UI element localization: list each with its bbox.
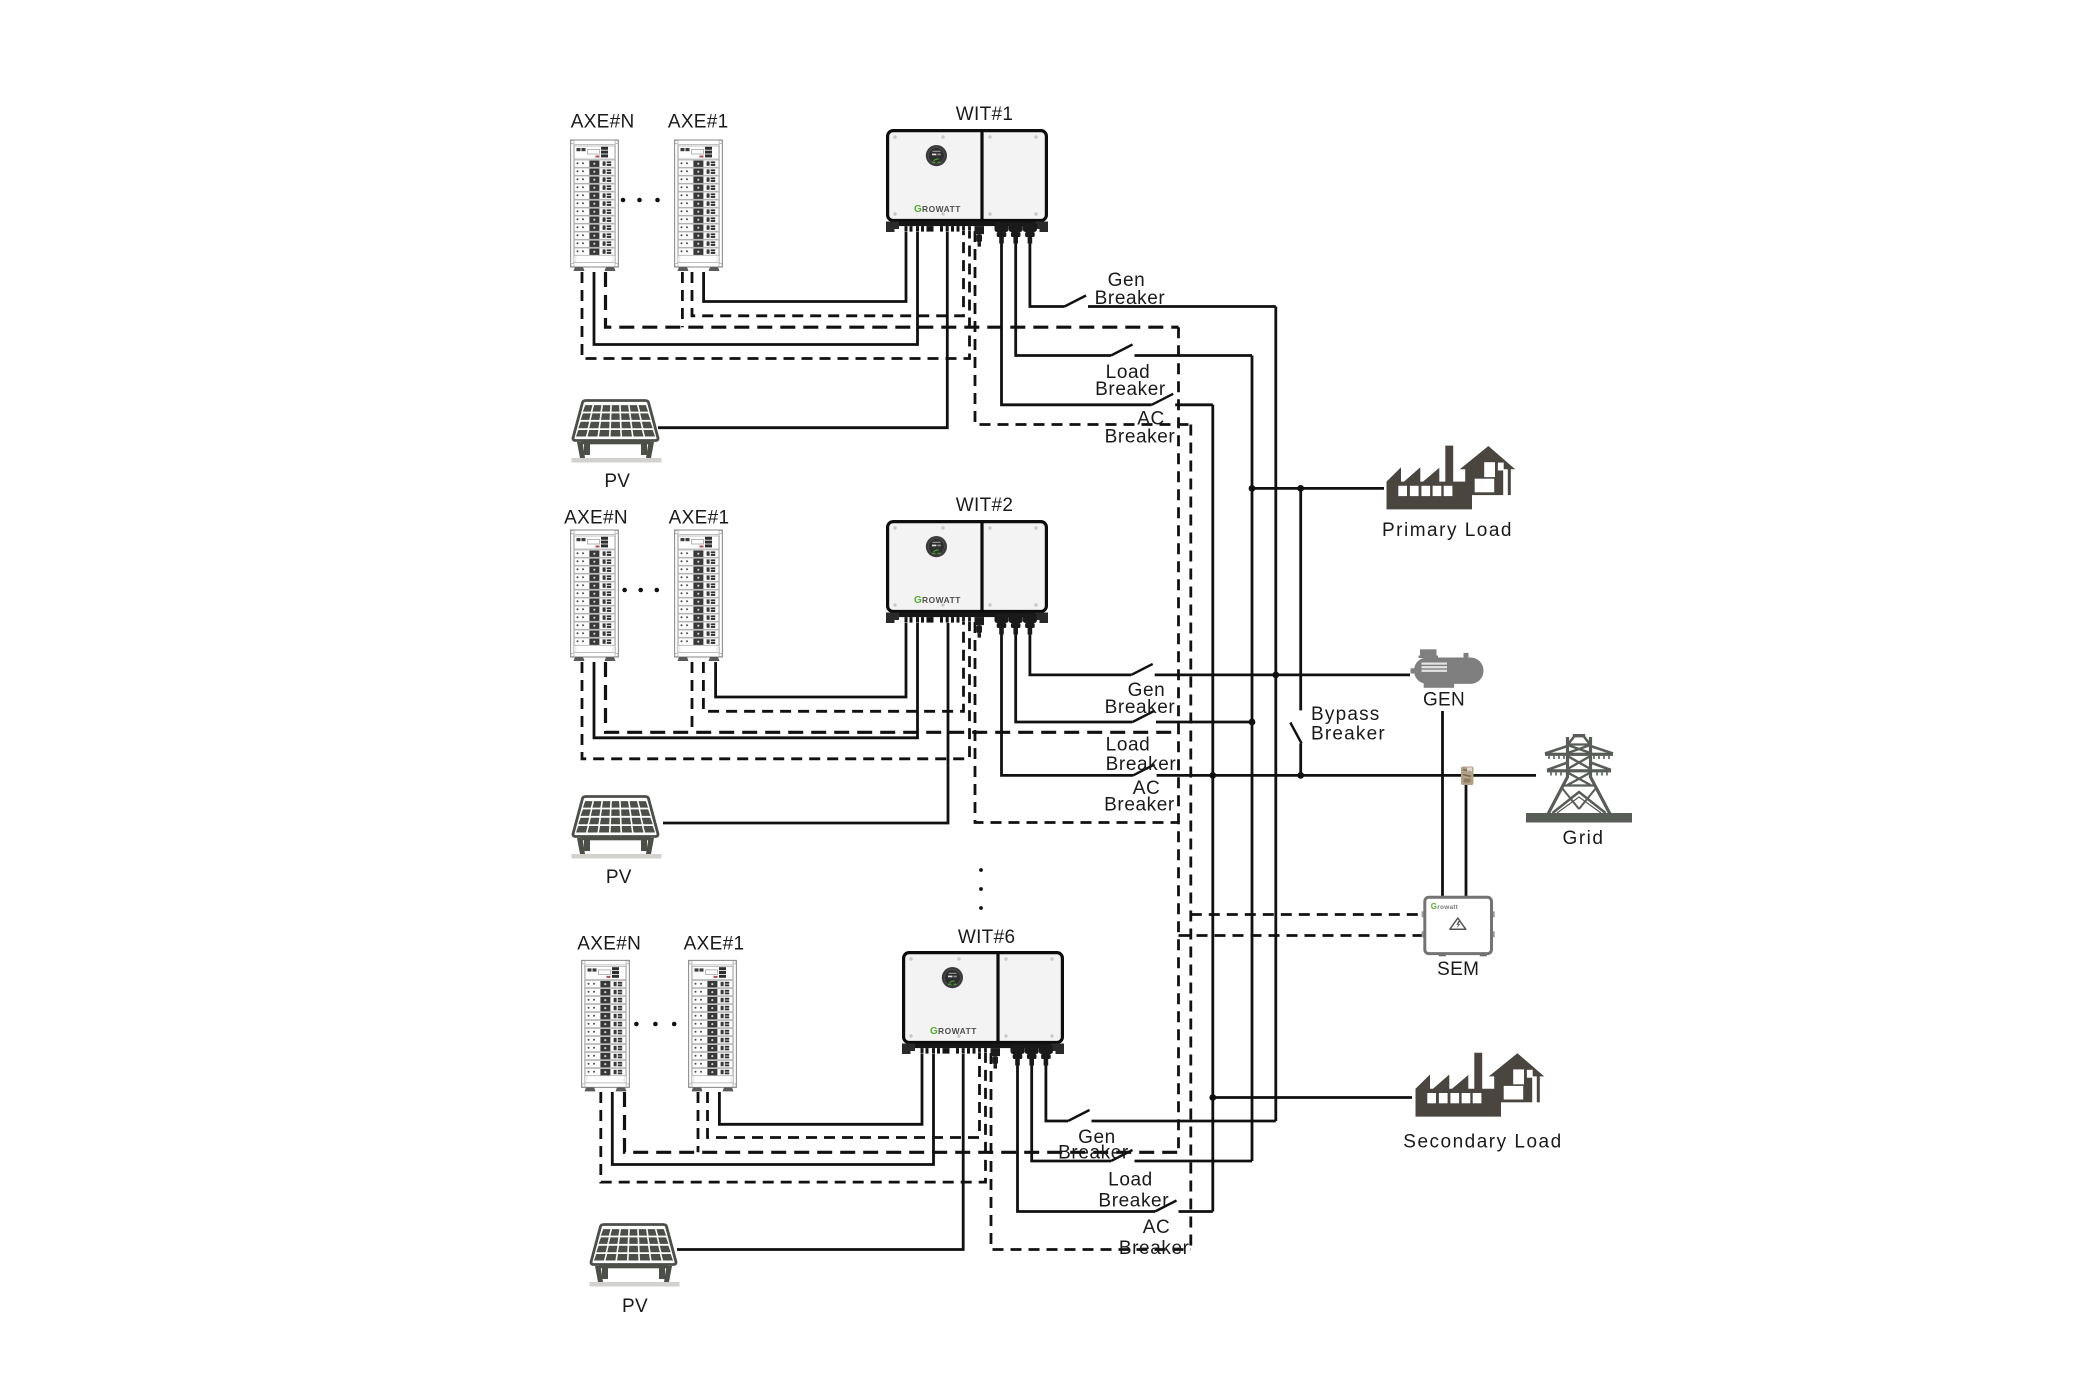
svg-text:GEN: GEN <box>1423 690 1465 711</box>
svg-text:Load: Load <box>1108 1170 1153 1191</box>
svg-text:Breaker: Breaker <box>1095 288 1166 309</box>
svg-text:Bypass: Bypass <box>1311 704 1381 725</box>
svg-text:Primary Load: Primary Load <box>1382 520 1513 541</box>
svg-text:Breaker: Breaker <box>1104 795 1175 816</box>
svg-text:PV: PV <box>606 867 632 888</box>
svg-text:SEM: SEM <box>1437 959 1479 980</box>
svg-text:Breaker: Breaker <box>1106 754 1177 775</box>
svg-text:Secondary Load: Secondary Load <box>1403 1132 1562 1153</box>
svg-text:Breaker: Breaker <box>1058 1143 1129 1164</box>
svg-text:Load: Load <box>1106 735 1151 756</box>
svg-text:PV: PV <box>604 471 630 492</box>
svg-text:Breaker: Breaker <box>1105 427 1176 448</box>
svg-text:Breaker: Breaker <box>1119 1238 1190 1259</box>
svg-text:AXE#N: AXE#N <box>564 508 628 529</box>
svg-text:AXE#1: AXE#1 <box>668 112 729 133</box>
svg-text:WIT#1: WIT#1 <box>956 104 1013 125</box>
svg-text:Breaker: Breaker <box>1098 1191 1169 1212</box>
svg-text:Grid: Grid <box>1563 828 1605 849</box>
svg-text:Breaker: Breaker <box>1095 379 1166 400</box>
svg-text:AXE#N: AXE#N <box>577 934 641 955</box>
svg-text:AXE#1: AXE#1 <box>684 934 745 955</box>
svg-text:AC: AC <box>1143 1217 1171 1238</box>
svg-text:Breaker: Breaker <box>1105 697 1176 718</box>
svg-text:AXE#1: AXE#1 <box>669 508 730 529</box>
svg-text:PV: PV <box>622 1296 648 1317</box>
svg-text:WIT#6: WIT#6 <box>958 927 1015 948</box>
svg-text:AXE#N: AXE#N <box>571 112 635 133</box>
svg-text:Breaker: Breaker <box>1311 724 1386 745</box>
svg-text:WIT#2: WIT#2 <box>956 495 1013 516</box>
